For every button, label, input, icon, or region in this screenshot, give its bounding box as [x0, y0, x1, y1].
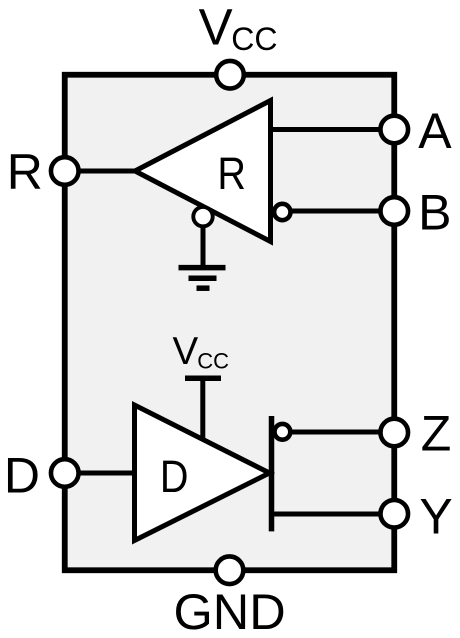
terminal R — [51, 157, 79, 185]
wire: driver output bus bar — [269, 416, 275, 531]
wire: receiver inverting output to B pin — [282, 209, 394, 214]
svg-text:R: R — [7, 144, 43, 200]
wire: D input (D pin to driver) — [65, 471, 140, 476]
wire: Vcc stub to driver — [200, 378, 205, 443]
bubble: receiver enable — [193, 207, 212, 226]
svg-text:Y: Y — [419, 488, 452, 544]
svg-text:V: V — [173, 330, 199, 373]
terminal D — [51, 459, 79, 487]
terminal A — [380, 116, 408, 144]
svg-text:CC: CC — [231, 21, 277, 57]
terminal B — [380, 197, 408, 225]
wire: receiver output to A pin — [268, 127, 394, 132]
svg-text:Z: Z — [421, 406, 452, 462]
op-amp D (driver triangle) — [135, 405, 270, 541]
svg-text:CC: CC — [197, 349, 229, 374]
bubble: driver inverting output Z — [275, 424, 291, 440]
svg-text:D: D — [4, 448, 40, 504]
wire: receiver enable stub to ground — [201, 217, 206, 268]
svg-text:R: R — [217, 148, 246, 199]
ground — [179, 268, 226, 289]
bubble: receiver inverting output — [274, 204, 290, 220]
svg-text:A: A — [418, 103, 452, 159]
Vcc rail bar (driver supply) — [185, 375, 221, 381]
wire: driver inverting output to Z pin — [283, 430, 394, 435]
terminal GND — [216, 556, 244, 584]
terminal Y — [380, 500, 408, 528]
wire: driver output to Y pin — [272, 512, 395, 517]
svg-text:D: D — [160, 452, 189, 503]
svg-text:B: B — [418, 185, 451, 241]
svg-text:GND: GND — [174, 583, 286, 638]
terminal Z — [380, 419, 408, 447]
svg-text:V: V — [199, 0, 233, 56]
op-amp R (receiver triangle) — [135, 101, 271, 242]
device body box — [65, 75, 395, 571]
terminal Vcc — [216, 61, 244, 89]
wire: R input (R pin to receiver apex) — [65, 169, 142, 174]
